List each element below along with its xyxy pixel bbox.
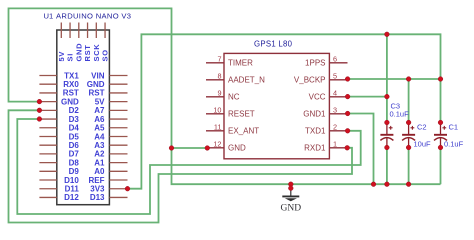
- wire 3V3 power net: Arduino 3V3 up and across top to caps: [128, 34, 441, 188]
- svg-text:GND: GND: [228, 144, 246, 153]
- svg-text:U1: U1: [44, 12, 54, 21]
- pin left RST (U1): [39, 92, 56, 94]
- pin 2 TXD1 (GPS1): [329, 130, 347, 132]
- svg-text:RST: RST: [89, 89, 105, 98]
- svg-text:3V3: 3V3: [90, 185, 105, 194]
- svg-text:A5: A5: [94, 124, 105, 133]
- svg-text:V_BCKP: V_BCKP: [294, 76, 326, 85]
- node C3 bottom: [385, 145, 390, 150]
- capacitor C1: [434, 123, 447, 148]
- svg-text:A0: A0: [94, 167, 105, 176]
- wire GND net: Arduino GND pin, left/top loop to GPS pin12 and ground rail: [9, 8, 441, 184]
- node GPS1 pin5 tip: [345, 77, 350, 82]
- node C2 top: [406, 120, 411, 125]
- node U1.3V3 junction: [125, 186, 130, 191]
- wire 3V3 branch down to VCC and C3: [386, 34, 388, 122]
- svg-text:12: 12: [213, 139, 221, 148]
- pin 10 RESET (GPS1): [206, 113, 224, 115]
- svg-text:A4: A4: [94, 132, 105, 141]
- pin right GND (U1): [109, 83, 127, 85]
- svg-text:D10: D10: [64, 176, 79, 185]
- svg-text:D7: D7: [69, 150, 80, 159]
- node GPS1 pin12 tip: [205, 146, 210, 151]
- svg-text:5V: 5V: [57, 51, 66, 62]
- node U1.GND junction: [37, 99, 42, 104]
- node GPS1 pin1 tip: [345, 145, 350, 150]
- svg-text:D2: D2: [69, 106, 80, 115]
- svg-text:SO: SO: [101, 49, 110, 61]
- node V_BCKP/C1 junction: [438, 77, 443, 82]
- pin top 5V (U1): [60, 23, 62, 39]
- ground symbol: [290, 184, 292, 188]
- svg-text:ARDUINO NANO V3: ARDUINO NANO V3: [56, 12, 131, 21]
- svg-text:2: 2: [333, 122, 337, 131]
- svg-text:GND: GND: [74, 43, 83, 62]
- wire V_BCKP branch down to C2: [408, 79, 410, 123]
- pin left RX0 (U1): [39, 83, 56, 85]
- svg-text:A6: A6: [94, 115, 105, 124]
- pin left D2 (U1): [39, 109, 56, 111]
- wire VCC row: [348, 96, 387, 98]
- pin right A6 (U1): [109, 118, 127, 120]
- svg-text:AADET_N: AADET_N: [228, 76, 265, 85]
- svg-text:RXD1: RXD1: [304, 144, 326, 153]
- node C1 top: [438, 120, 443, 125]
- node GPS1 pin2 tip: [345, 128, 350, 133]
- pin right RST (U1): [109, 92, 127, 94]
- svg-text:D8: D8: [69, 158, 80, 167]
- pin left D10 (U1): [39, 179, 56, 181]
- svg-text:3: 3: [333, 105, 337, 114]
- capacitor C3: [380, 123, 393, 148]
- svg-text:RST: RST: [83, 44, 92, 61]
- svg-text:0.1uF: 0.1uF: [444, 140, 464, 149]
- pin right 5V (U1): [109, 101, 127, 103]
- svg-text:A2: A2: [94, 150, 105, 159]
- pin right A7 (U1): [109, 109, 127, 111]
- svg-text:10: 10: [213, 105, 221, 114]
- svg-text:D4: D4: [69, 124, 80, 133]
- svg-text:GND1: GND1: [303, 110, 326, 119]
- svg-text:5: 5: [333, 71, 337, 80]
- pin top SO (U1): [104, 23, 106, 39]
- node VCC/C3 junction: [385, 94, 390, 99]
- svg-text:VCC: VCC: [309, 93, 326, 102]
- node rail GND symbol junction: [288, 182, 293, 187]
- svg-text:RX0: RX0: [63, 80, 79, 89]
- svg-text:GPS1 L80: GPS1 L80: [254, 40, 293, 49]
- pin 11 EX_ANT (GPS1): [206, 130, 224, 132]
- svg-text:1PPS: 1PPS: [305, 59, 325, 68]
- svg-text:7: 7: [217, 54, 221, 63]
- pin left D4 (U1): [39, 127, 56, 129]
- box U1 body: [57, 30, 110, 205]
- svg-text:SCK: SCK: [92, 44, 101, 62]
- capacitor C2: [402, 123, 415, 148]
- pin left D5 (U1): [39, 135, 56, 137]
- svg-text:D13: D13: [90, 193, 105, 202]
- svg-text:4: 4: [333, 88, 337, 97]
- pin right A2 (U1): [109, 153, 127, 155]
- svg-text:REF: REF: [89, 176, 105, 185]
- svg-text:RESET: RESET: [228, 110, 255, 119]
- pin right A5 (U1): [109, 127, 127, 129]
- pin left D6 (U1): [39, 144, 56, 146]
- svg-text:A3: A3: [94, 141, 105, 150]
- svg-text:5V: 5V: [95, 97, 105, 106]
- svg-text:GND: GND: [61, 97, 79, 106]
- pin left D8 (U1): [39, 162, 56, 164]
- pin 9 NC (GPS1): [206, 96, 224, 98]
- pin 5 V_BCKP (GPS1): [329, 79, 347, 81]
- pin left D7 (U1): [39, 153, 56, 155]
- pin 3 GND1 (GPS1): [329, 113, 347, 115]
- wire GND1 to ground rail: [348, 114, 374, 185]
- svg-text:10uF: 10uF: [414, 140, 432, 149]
- pin left TX1 (U1): [39, 75, 56, 77]
- wire V_BCKP row: [348, 78, 441, 80]
- pin right A3 (U1): [109, 144, 127, 146]
- node rail/C3 junction: [385, 182, 390, 187]
- node C3 top: [385, 120, 390, 125]
- svg-text:GND: GND: [281, 203, 302, 213]
- node rail/GND1 junction: [371, 182, 376, 187]
- svg-text:NC: NC: [228, 93, 240, 102]
- pin right D13 (U1): [109, 196, 127, 198]
- pin right A0 (U1): [109, 170, 127, 172]
- svg-text:TXD1: TXD1: [305, 127, 326, 136]
- svg-text:GND: GND: [87, 80, 105, 89]
- svg-text:C2: C2: [417, 123, 427, 132]
- svg-text:9: 9: [217, 88, 221, 97]
- svg-text:SI: SI: [66, 53, 75, 62]
- pin top RST (U1): [87, 23, 89, 39]
- svg-text:RST: RST: [63, 89, 79, 98]
- wire C1 bottom lead: [440, 148, 442, 185]
- svg-text:TX1: TX1: [64, 71, 79, 80]
- svg-text:C1: C1: [449, 123, 459, 132]
- pin right VIN (U1): [109, 75, 127, 77]
- svg-text:A1: A1: [94, 158, 105, 167]
- pin left D9 (U1): [39, 170, 56, 172]
- wire D2 to RXD1 net: [9, 110, 353, 222]
- pin left D12 (U1): [39, 196, 56, 198]
- pin 1 RXD1 (GPS1): [329, 147, 347, 149]
- svg-text:11: 11: [214, 122, 222, 131]
- pin right A1 (U1): [109, 162, 127, 164]
- svg-text:D5: D5: [69, 132, 80, 141]
- node GND net T-junction: [169, 146, 174, 151]
- pin top GND (U1): [78, 23, 80, 39]
- svg-text:0.1uF: 0.1uF: [390, 110, 410, 119]
- pin 4 VCC (GPS1): [329, 96, 347, 98]
- svg-text:TIMER: TIMER: [228, 59, 253, 68]
- wire D3 to TXD1 net: [17, 119, 360, 214]
- svg-text:D6: D6: [69, 141, 80, 150]
- pin right REF (U1): [109, 179, 127, 181]
- svg-text:D3: D3: [69, 115, 80, 124]
- svg-text:D12: D12: [64, 193, 79, 202]
- pin left D11 (U1): [39, 188, 56, 190]
- node GND pin dot: [288, 186, 293, 191]
- node U1.D3 junction: [37, 117, 42, 122]
- box GPS1 body: [224, 53, 329, 158]
- svg-text:8: 8: [217, 71, 221, 80]
- pin top SCK (U1): [95, 23, 97, 39]
- node GPS1 pin3 tip: [345, 111, 350, 116]
- svg-text:D11: D11: [65, 185, 80, 194]
- wire C3 bottom lead: [386, 148, 388, 185]
- node 3V3 rail junction: [385, 32, 390, 37]
- pin top SI (U1): [69, 23, 71, 39]
- svg-text:EX_ANT: EX_ANT: [228, 127, 259, 136]
- pin right 3V3 (U1): [109, 188, 127, 190]
- svg-text:1: 1: [333, 139, 337, 148]
- svg-text:D9: D9: [69, 167, 80, 176]
- node GPS1 pin4 tip: [345, 94, 350, 99]
- node U1.D2 junction: [37, 108, 42, 113]
- wire GND stub to GPS pin 12: [172, 147, 208, 149]
- node C2 bottom: [406, 145, 411, 150]
- node V_BCKP/C2 junction: [406, 77, 411, 82]
- svg-text:A7: A7: [94, 106, 105, 115]
- pin 8 AADET_N (GPS1): [206, 79, 224, 81]
- wire C2 bottom lead: [408, 148, 410, 185]
- pin left D3 (U1): [39, 118, 56, 120]
- pin left GND (U1): [39, 101, 56, 103]
- pin 12 GND (GPS1): [206, 147, 224, 149]
- pin 6 1PPS (GPS1): [329, 62, 347, 64]
- svg-text:6: 6: [333, 54, 337, 63]
- node rail/C2 junction: [406, 182, 411, 187]
- pin right A4 (U1): [109, 135, 127, 137]
- node C1 bottom: [438, 145, 443, 150]
- svg-text:VIN: VIN: [91, 71, 105, 80]
- pin 7 TIMER (GPS1): [206, 62, 224, 64]
